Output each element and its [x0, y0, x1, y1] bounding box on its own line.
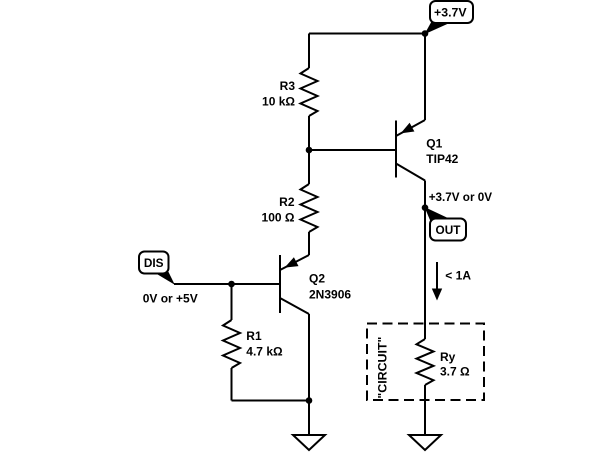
flag DIS: [139, 252, 175, 285]
svg-text:3.7 Ω: 3.7 Ω: [440, 365, 470, 379]
wire left rail down to R3: [308, 34, 310, 69]
junction node DIS/R1: [228, 281, 235, 288]
junction node R3/R2/Q1 base: [306, 147, 313, 154]
junction node OUT: [422, 204, 429, 211]
svg-text:+3.7V: +3.7V: [434, 6, 467, 20]
resistor R1: [223, 320, 240, 368]
svg-text:100 Ω: 100 Ω: [262, 211, 295, 225]
svg-text:R1: R1: [246, 329, 262, 343]
svg-text:2N3906: 2N3906: [309, 288, 351, 302]
current arrow < 1A: [432, 262, 442, 301]
wire bottom horizontal R1 to collector node: [232, 400, 310, 402]
wire DIS to Q2 base: [174, 283, 280, 285]
junction node top +3.7V: [422, 30, 429, 37]
wire node to R2: [308, 150, 310, 184]
svg-text:"CIRCUIT": "CIRCUIT": [376, 336, 390, 398]
wire R3 bottom to node: [308, 116, 310, 150]
wire R1 bottom: [231, 368, 233, 401]
ground left: [293, 435, 325, 450]
dashed box CIRCUIT: [367, 324, 484, 401]
svg-text:Q1: Q1: [426, 137, 442, 151]
flag OUT: [425, 207, 467, 241]
transistor Q1: [396, 120, 425, 181]
svg-text:R3: R3: [280, 79, 296, 93]
transistor Q2: [280, 255, 309, 314]
svg-text:TIP42: TIP42: [426, 152, 458, 166]
power flag +3.7V: [425, 1, 474, 34]
resistor Ry: [417, 339, 434, 385]
svg-text:10 kΩ: 10 kΩ: [262, 95, 295, 109]
svg-text:DIS: DIS: [144, 256, 164, 270]
svg-text:OUT: OUT: [436, 223, 462, 237]
svg-text:Ry: Ry: [440, 350, 456, 364]
svg-text:4.7 kΩ: 4.7 kΩ: [246, 345, 283, 359]
wire Q1 base: [309, 149, 396, 151]
resistor R3: [301, 68, 318, 116]
svg-text:< 1A: < 1A: [445, 269, 471, 283]
svg-text:Q2: Q2: [309, 272, 325, 286]
resistor R2: [301, 184, 318, 232]
wire Q2 collector down: [308, 314, 310, 401]
svg-text:+3.7V or 0V: +3.7V or 0V: [429, 191, 493, 204]
svg-text:R2: R2: [279, 195, 295, 209]
ground right: [409, 435, 441, 450]
wire node to ground: [308, 401, 310, 436]
wire top rail: [309, 33, 425, 35]
wire base node down to R1: [231, 284, 233, 320]
wire Q1 collector down through dashed box to Ry: [424, 181, 426, 340]
wire Ry to ground: [424, 385, 426, 435]
wire R2 bottom to Q2 emitter: [308, 232, 310, 255]
svg-text:0V or +5V: 0V or +5V: [143, 292, 198, 306]
wire +3.7V rail down to Q1 emitter: [424, 34, 426, 121]
junction node bottom: [306, 397, 313, 404]
